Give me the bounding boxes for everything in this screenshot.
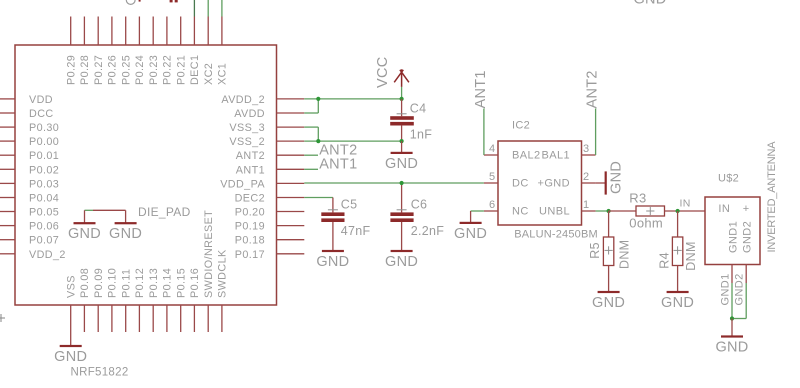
svg-text:ANT1: ANT1 (473, 70, 489, 108)
junction R3/R4/antenna (676, 209, 680, 213)
svg-text:DC: DC (512, 178, 529, 190)
ground GND (DIE_PAD left) (74, 222, 96, 224)
svg-text:P0.02: P0.02 (29, 164, 59, 176)
svg-text:1nF: 1nF (410, 128, 433, 142)
cut-off red mark near circle (139, 0, 141, 2)
svg-text:0ohm: 0ohm (629, 216, 663, 231)
svg-text:GND: GND (54, 349, 87, 365)
pin VSS_3 (IC1 right) (277, 126, 305, 128)
svg-text:U$2: U$2 (718, 173, 739, 185)
svg-text:VDD: VDD (29, 94, 53, 106)
svg-text:IN: IN (680, 198, 691, 210)
wire GND1 down (731, 283, 733, 319)
cut-off symbol circle (top) (126, 0, 135, 4)
pin VDD (IC1 left) (0, 98, 15, 100)
pin P0.30 (IC1 left) (0, 126, 15, 128)
supply VCC symbol (401, 69, 403, 87)
svg-text:R3: R3 (629, 191, 646, 206)
pin 4 BAL2 (484, 154, 498, 156)
svg-text:DEC1: DEC1 (189, 55, 201, 85)
svg-text:6: 6 (489, 199, 496, 211)
antenna U$2 body (705, 197, 760, 265)
pin P0.23 (IC1 top) (152, 17, 154, 46)
svg-text:P0.22: P0.22 (162, 55, 174, 85)
svg-text:DNM: DNM (618, 240, 632, 269)
svg-text:SWDCLK: SWDCLK (217, 249, 229, 298)
svg-text:P0.18: P0.18 (235, 235, 265, 247)
ground GND below R5 (598, 291, 620, 293)
svg-text:P0.19: P0.19 (235, 221, 265, 233)
ground GND at VSS pin (60, 345, 82, 347)
wire VCC net (AVDD_2 row) (304, 98, 401, 100)
junction VCC/C4 (400, 97, 404, 101)
pin P0.18 (IC1 right) (277, 239, 305, 241)
svg-text:IN: IN (718, 203, 730, 215)
svg-text:P0.15: P0.15 (176, 268, 188, 298)
pin P0.07 (IC1 left) (0, 239, 15, 241)
pin DEC2 (IC1 right) (277, 197, 305, 199)
pin P0.09 (IC1 bottom) (97, 305, 99, 332)
pin GND2 stub (745, 265, 747, 284)
pin ANT1 (IC1 right) (277, 168, 305, 170)
svg-text:ANT1: ANT1 (236, 164, 265, 176)
svg-text:VCC: VCC (375, 56, 391, 88)
svg-text:SWDIO/NRESET: SWDIO/NRESET (203, 210, 215, 298)
svg-text:4: 4 (489, 143, 496, 155)
svg-text:ANT2: ANT2 (236, 150, 265, 162)
svg-text:2: 2 (583, 171, 590, 183)
svg-text:GND: GND (592, 295, 625, 311)
pin VDD_2 (IC1 left) (0, 253, 15, 255)
pin P0.01 (IC1 left) (0, 154, 15, 156)
svg-text:P0.12: P0.12 (134, 268, 146, 298)
svg-text:BALUN-2450BM: BALUN-2450BM (514, 229, 598, 241)
junction C4/GND net (400, 139, 404, 143)
svg-text:C4: C4 (410, 102, 427, 116)
svg-text:DEC2: DEC2 (235, 193, 265, 205)
svg-text:+: + (743, 203, 750, 215)
pin DIE_PAD bracket with two grounds (85, 209, 94, 211)
wire stub net ANT1 (304, 168, 318, 170)
pin P0.13 (IC1 bottom) (152, 305, 154, 332)
svg-text:DCC: DCC (29, 108, 54, 120)
svg-text:C6: C6 (411, 197, 428, 211)
svg-text:P0.13: P0.13 (148, 268, 160, 298)
svg-text:+GND: +GND (538, 178, 570, 190)
pin 5 DC (484, 182, 498, 184)
svg-text:1: 1 (583, 199, 590, 211)
resistor R3 0ohm (609, 210, 636, 212)
pin P0.12 (IC1 bottom) (138, 305, 140, 332)
svg-text:XC2: XC2 (203, 63, 215, 85)
svg-text:P0.16: P0.16 (189, 268, 201, 298)
pin VSS (IC1 bottom) (70, 305, 72, 346)
svg-text:P0.26: P0.26 (107, 55, 119, 85)
svg-text:C5: C5 (341, 197, 358, 211)
wire pin 6 to ground (471, 210, 484, 212)
pin P0.16 (IC1 bottom) (193, 305, 195, 332)
pin P0.22 (IC1 top) (166, 17, 168, 46)
svg-text:GND: GND (661, 295, 694, 311)
svg-text:P0.24: P0.24 (134, 55, 146, 85)
wire VDD_PA net to balun pin 5 (304, 182, 484, 184)
svg-text:DNM: DNM (684, 241, 698, 270)
wire net ANT1 up from pin 4 (483, 109, 485, 156)
svg-text:GND: GND (715, 340, 748, 356)
svg-text:GND: GND (316, 254, 349, 270)
pin ANT2 (IC1 right) (277, 154, 305, 156)
pin P0.11 (IC1 bottom) (125, 305, 127, 332)
pin P0.04 (IC1 left) (0, 197, 15, 199)
junction antenna grounds (730, 316, 734, 320)
pin 2 +GND (582, 182, 596, 184)
svg-text:P0.20: P0.20 (235, 207, 265, 219)
pin P0.00 (IC1 left) (0, 140, 15, 142)
pin P0.21 (IC1 top) (180, 17, 182, 46)
ground GND (DIE_PAD right) (115, 222, 137, 224)
svg-text:NC: NC (512, 206, 529, 218)
ground GND below C5 (322, 250, 344, 252)
pin VDD_PA (IC1 right) (277, 182, 305, 184)
svg-text:P0.11: P0.11 (121, 269, 133, 298)
junction C6/VDD_PA (400, 181, 404, 185)
pin P0.14 (IC1 bottom) (166, 305, 168, 332)
svg-text:P0.00: P0.00 (29, 136, 59, 148)
pin 3 BAL1 (582, 154, 596, 156)
svg-text:VDD_PA: VDD_PA (220, 178, 265, 190)
pin 6 NC (484, 210, 498, 212)
svg-text:P0.04: P0.04 (29, 193, 59, 205)
svg-text:P0.29: P0.29 (66, 55, 78, 85)
cut-off capacitor plates (top) (170, 0, 173, 2)
svg-text:GND: GND (454, 226, 487, 242)
svg-text:ANT2: ANT2 (585, 70, 601, 108)
svg-text:GND: GND (68, 226, 101, 242)
pin DEC1 (IC1 top) (193, 17, 195, 46)
svg-text:P0.06: P0.06 (29, 221, 59, 233)
pin GND1 stub (731, 265, 733, 284)
wire DEC2 net to C5 (304, 197, 333, 199)
pin P0.02 (IC1 left) (0, 168, 15, 170)
svg-text:R4: R4 (657, 252, 671, 269)
svg-text:IC2: IC2 (512, 120, 530, 132)
svg-text:P0.10: P0.10 (107, 268, 119, 298)
svg-text:P0.05: P0.05 (29, 207, 59, 219)
svg-text:GND2: GND2 (734, 273, 746, 305)
svg-text:GND: GND (109, 226, 142, 242)
ground GND at balun pin 2 (rotated) (596, 182, 606, 184)
svg-text:GND: GND (385, 254, 418, 270)
wire AVDD branch (304, 112, 318, 114)
ground GND below antenna (731, 319, 733, 337)
wire XC2 to top edge (207, 0, 209, 17)
svg-text:P0.01: P0.01 (29, 150, 59, 162)
junction VCC/AVDD (316, 97, 320, 101)
resistor R5 DNM (608, 211, 610, 237)
pin AVDD (IC1 right) (277, 112, 305, 114)
wire pin 1 to junction (596, 210, 609, 212)
svg-text:P0.03: P0.03 (29, 178, 59, 190)
ground GND below C4 (401, 141, 403, 153)
svg-text:GND: GND (608, 161, 624, 194)
pin P0.26 (IC1 top) (111, 17, 113, 46)
svg-text:INVERTED_ANTENNA: INVERTED_ANTENNA (766, 141, 778, 253)
pin P0.05 (IC1 left) (0, 211, 15, 213)
pin P0.08 (IC1 bottom) (83, 305, 85, 332)
pin P0.25 (IC1 top) (125, 17, 127, 46)
wire net ANT2 up from pin 3 (595, 109, 597, 156)
svg-text:GND1: GND1 (727, 221, 739, 253)
wire stub net ANT2 (304, 154, 318, 156)
svg-text:P0.14: P0.14 (162, 268, 174, 298)
svg-text:VSS: VSS (66, 275, 78, 298)
pin SWDIO/NRESET (IC1 bottom) (207, 305, 209, 332)
pin VSS_2 (IC1 right) (277, 140, 305, 142)
pin 1 UNBL (582, 210, 596, 212)
svg-text:P0.23: P0.23 (148, 55, 160, 85)
svg-text:47nF: 47nF (341, 224, 371, 238)
ground GND at balun pin 6 (460, 222, 482, 224)
svg-text:P0.27: P0.27 (93, 55, 105, 85)
svg-text:AVDD: AVDD (234, 108, 265, 120)
pin XC1 (IC1 top) (221, 17, 223, 46)
svg-text:AVDD_2: AVDD_2 (221, 94, 265, 106)
svg-text:R5: R5 (588, 242, 602, 259)
svg-text:5: 5 (489, 171, 496, 183)
svg-text:P0.25: P0.25 (121, 55, 133, 85)
pin SWDCLK (IC1 bottom) (221, 305, 223, 332)
pin AVDD_2 (IC1 right) (277, 98, 305, 100)
wire GND2 down and left (745, 283, 747, 319)
pin P0.06 (IC1 left) (0, 225, 15, 227)
pin P0.28 (IC1 top) (83, 17, 85, 46)
svg-text:BAL2: BAL2 (512, 150, 541, 162)
pin XC2 (IC1 top) (207, 17, 209, 46)
capacitor C5 (332, 198, 334, 213)
wire DEC1 to top edge (193, 0, 195, 17)
capacitor C4 (401, 99, 403, 116)
svg-text:GND2: GND2 (741, 221, 753, 253)
svg-text:P0.09: P0.09 (93, 268, 105, 298)
svg-text:GND: GND (385, 156, 418, 172)
pin DCC (IC1 left) (0, 112, 15, 114)
junction pin1/R3/R5 (607, 209, 611, 213)
svg-text:XC1: XC1 (217, 63, 229, 85)
svg-text:P0.08: P0.08 (79, 268, 91, 298)
svg-text:P0.30: P0.30 (29, 122, 59, 134)
svg-text:GND: GND (633, 0, 666, 7)
svg-text:VSS_3: VSS_3 (229, 122, 265, 134)
pin P0.24 (IC1 top) (138, 17, 140, 46)
pin P0.17 (IC1 right) (277, 253, 305, 255)
svg-text:P0.28: P0.28 (79, 55, 91, 85)
svg-text:P0.07: P0.07 (29, 235, 59, 247)
ground GND below R4 (667, 291, 689, 293)
svg-text:GND1: GND1 (719, 273, 731, 305)
svg-text:BAL1: BAL1 (541, 150, 570, 162)
svg-text:VDD_2: VDD_2 (29, 249, 66, 261)
pin P0.20 (IC1 right) (277, 211, 305, 213)
IC1 origin cross (0, 317, 5, 319)
wire VCC to junction (401, 87, 403, 99)
capacitor C6 (401, 183, 403, 212)
svg-text:P0.17: P0.17 (235, 249, 265, 261)
wire VSS_3 branch (304, 126, 318, 128)
svg-text:2.2nF: 2.2nF (411, 224, 445, 238)
wire GND net (VSS_2 row) (304, 140, 401, 142)
pin P0.15 (IC1 bottom) (180, 305, 182, 332)
IC IC1 NRF51822 body (15, 45, 277, 305)
junction VSS_2/VSS_3 (316, 139, 320, 143)
pin P0.10 (IC1 bottom) (111, 305, 113, 332)
svg-text:NRF51822: NRF51822 (71, 367, 129, 379)
wire XC1 to top edge (221, 0, 223, 17)
IC IC2 BAL2BAL1 body (498, 141, 582, 225)
svg-text:P0.21: P0.21 (176, 55, 188, 85)
ground GND below C6 (391, 250, 413, 252)
svg-text:3: 3 (583, 143, 590, 155)
svg-text:VSS_2: VSS_2 (229, 136, 265, 148)
pin P0.19 (IC1 right) (277, 225, 305, 227)
pin P0.27 (IC1 top) (97, 17, 99, 46)
svg-text:ANT1: ANT1 (319, 157, 357, 173)
svg-text:UNBL: UNBL (539, 206, 570, 218)
resistor R4 DNM (677, 211, 679, 237)
pin P0.03 (IC1 left) (0, 182, 15, 184)
pin P0.29 (IC1 top) (70, 17, 72, 46)
svg-text:DIE_PAD: DIE_PAD (138, 205, 191, 219)
